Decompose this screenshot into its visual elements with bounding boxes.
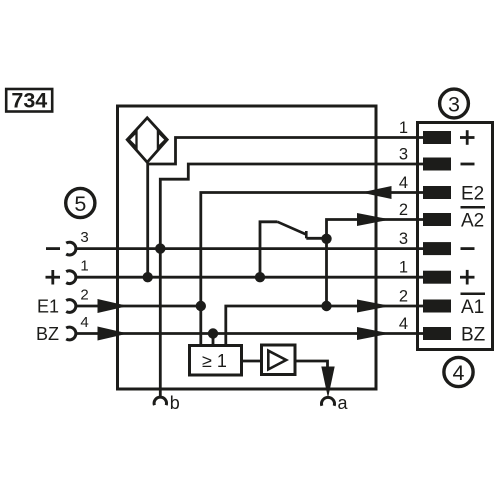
svg-text:1: 1: [80, 258, 88, 275]
label + (left): [46, 270, 61, 285]
arrow E2 input: [361, 186, 392, 199]
svg-text:≥ 1: ≥ 1: [202, 351, 227, 371]
svg-text:BZ: BZ: [461, 325, 486, 346]
wire BZ to OR gate: [212, 334, 215, 346]
node A1 net junction: [321, 301, 331, 311]
wire row 3 E2: [201, 193, 423, 346]
svg-text:4: 4: [399, 174, 408, 192]
svg-text:4: 4: [453, 361, 465, 385]
pad pin 3 (-) lower: [423, 242, 451, 255]
svg-text:3: 3: [448, 92, 460, 116]
wire row 1 (+ top): [146, 138, 423, 278]
clamp a: [322, 397, 335, 405]
node BZ junction: [208, 328, 218, 338]
svg-text:4: 4: [399, 315, 408, 333]
wire amplifier to a: [295, 361, 328, 368]
svg-text:1: 1: [399, 259, 408, 277]
label - (connector row 5): [461, 247, 475, 250]
connector block (right): [418, 123, 493, 350]
svg-text:2: 2: [80, 287, 88, 304]
node - bus junction: [155, 243, 165, 253]
terminal arc - (left row 5): [66, 242, 76, 255]
terminal arc + (left row 6): [66, 271, 76, 284]
wire b drop: [159, 249, 162, 398]
node switch output: [321, 234, 331, 244]
svg-text:3: 3: [80, 229, 88, 246]
svg-text:2: 2: [399, 288, 408, 306]
svg-text:E2: E2: [461, 184, 484, 205]
svg-text:b: b: [170, 393, 180, 413]
svg-text:a: a: [338, 393, 349, 413]
label A1 with overline: [461, 294, 486, 318]
svg-text:3: 3: [399, 146, 408, 164]
terminal arc E1 (left row 7): [66, 300, 76, 313]
wire OR to amplifier: [242, 360, 262, 363]
terminal circle 5: [66, 188, 95, 217]
svg-text:A1: A1: [461, 297, 484, 318]
node + diamond junction: [143, 272, 153, 282]
pad pin 2 (A2): [423, 213, 451, 226]
switch pivot stub: [260, 222, 278, 277]
terminal arc BZ (left row 8): [66, 327, 76, 340]
wire - bus: [76, 247, 423, 250]
pad pin 2 (A1): [423, 300, 451, 313]
module outline: [118, 106, 377, 389]
label + (connector row 6): [460, 270, 475, 285]
arrow BZ output: [357, 327, 391, 340]
svg-text:A2: A2: [461, 211, 484, 232]
svg-text:5: 5: [74, 192, 86, 216]
svg-text:E1: E1: [37, 297, 59, 317]
arrow A1 output: [357, 300, 391, 313]
connector circle 3: [440, 89, 469, 118]
wire + bus: [76, 276, 423, 279]
switch contact tick: [305, 231, 308, 238]
node + switch junction: [255, 272, 265, 282]
svg-text:BZ: BZ: [36, 324, 59, 344]
wire row 4 A2: [327, 220, 424, 239]
wire BZ bus: [76, 332, 423, 335]
svg-text:4: 4: [80, 314, 88, 331]
pad pin 1 (+) lower: [423, 271, 451, 284]
pad pin 4 (E2): [423, 186, 451, 199]
wire switch to A1 net: [325, 239, 328, 306]
wire row 2 (- top staircase): [160, 164, 423, 249]
svg-text:2: 2: [399, 201, 408, 219]
svg-text:1: 1: [399, 119, 408, 137]
OR gate U1: [190, 346, 242, 376]
label + (connector row 1): [460, 130, 475, 145]
switch contact wire: [306, 237, 326, 240]
diamond right triangle: [158, 132, 166, 148]
pad pin 1 (+): [423, 131, 451, 144]
clamp b: [154, 397, 166, 405]
arrow a actuator: [321, 367, 334, 399]
amplifier U2: [262, 345, 296, 375]
switch blade: [278, 222, 307, 235]
varistor diamond: [127, 118, 167, 163]
pad pin 4 (BZ): [423, 327, 451, 340]
wire A1 net: [226, 306, 423, 346]
diamond left triangle: [129, 132, 137, 148]
arrow BZ input: [98, 327, 129, 341]
arrow E1 input: [98, 299, 129, 313]
label - (left): [46, 247, 60, 250]
svg-text:3: 3: [399, 230, 408, 248]
arrow A2 output: [357, 213, 391, 226]
pad pin 3 (-): [423, 158, 451, 171]
svg-text:734: 734: [11, 89, 47, 113]
connector circle 4: [444, 357, 473, 386]
frame label box 734: [6, 89, 52, 113]
node E1/E2 junction: [196, 301, 206, 311]
wire E1 bus: [76, 305, 204, 308]
label A2 with overline: [461, 207, 486, 231]
label - (connector row 2): [461, 163, 475, 166]
